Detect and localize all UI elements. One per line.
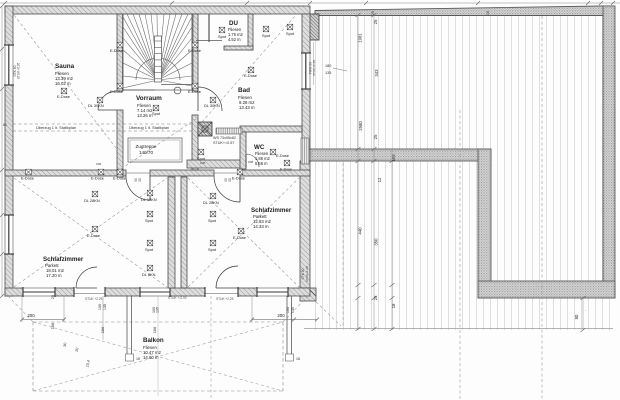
svg-text:100: 100 xyxy=(98,304,102,310)
svg-text:DU: DU xyxy=(229,20,238,27)
Spot bad 1 xyxy=(263,26,269,32)
section dashed line B xyxy=(541,16,543,400)
window bottom wall 3 xyxy=(257,288,288,296)
terrace top parapet wall xyxy=(315,6,614,16)
E-Dose stair right upper xyxy=(192,42,198,48)
svg-text:E-Dose: E-Dose xyxy=(276,153,289,158)
svg-text:Spot: Spot xyxy=(218,34,227,39)
window bottom wall 1 xyxy=(23,288,55,296)
house right exterior wall mid xyxy=(302,89,310,149)
balcony corner diag left xyxy=(8,296,33,322)
svg-text:E-Dose: E-Dose xyxy=(280,168,292,172)
svg-text:25: 25 xyxy=(373,19,378,24)
house left exterior wall upper xyxy=(5,6,13,45)
svg-text:STUK+0.28: STUK+0.28 xyxy=(312,60,316,76)
DU shower wall horizontal xyxy=(224,46,253,50)
radiator bad bottom xyxy=(216,128,242,134)
diagonal bedroom left a xyxy=(14,178,167,287)
svg-text:14.33 m: 14.33 m xyxy=(253,224,269,229)
svg-text:Bad: Bad xyxy=(238,87,250,94)
svg-text:E-Dose: E-Dose xyxy=(113,176,126,181)
corner dashed diagonal xyxy=(316,302,341,326)
shaft WS dark block xyxy=(198,122,212,136)
svg-text:180: 180 xyxy=(325,64,331,68)
chimney block xyxy=(309,14,319,40)
DU shower wall vertical xyxy=(248,14,253,50)
svg-text:Vorraum: Vorraum xyxy=(136,95,162,102)
svg-text:186: 186 xyxy=(152,327,157,334)
svg-text:5.56 m: 5.56 m xyxy=(255,161,268,166)
svg-text:·: · xyxy=(585,309,586,313)
svg-text:STUK +2.25: STUK +2.25 xyxy=(85,297,103,301)
svg-text:350: 350 xyxy=(374,238,379,246)
svg-text:STUK+0.95: STUK+0.95 xyxy=(17,62,21,79)
stair right wall xyxy=(192,14,198,91)
svg-text:2580: 2580 xyxy=(358,121,363,131)
svg-text:Spot: Spot xyxy=(208,247,217,252)
E-Dose bedroomR top xyxy=(237,169,243,175)
svg-text:Spot: Spot xyxy=(262,33,271,38)
diagonal sauna xyxy=(14,15,116,148)
dimension ticks xyxy=(356,13,361,17)
svg-text:Schlafzimmer: Schlafzimmer xyxy=(43,256,84,263)
svg-text:WS 73x95x82: WS 73x95x82 xyxy=(213,136,236,140)
svg-text:440: 440 xyxy=(358,227,363,235)
svg-text:135: 135 xyxy=(291,307,295,313)
svg-text:Spot: Spot xyxy=(145,247,154,252)
svg-text:STUK+=0.57: STUK+=0.57 xyxy=(213,141,234,145)
E-Dose bedroomL mid xyxy=(92,226,98,232)
stair left wall xyxy=(117,14,123,91)
dimension line chain 3 xyxy=(391,150,393,330)
diagonal bad xyxy=(202,16,295,122)
svg-text:WC: WC xyxy=(254,144,265,151)
svg-text:E-Dose: E-Dose xyxy=(57,94,70,99)
svg-text:Balkon: Balkon xyxy=(143,337,164,344)
Spot mid column 2 xyxy=(147,240,153,246)
svg-text:DL 30KN: DL 30KN xyxy=(204,103,220,108)
section dashed line A xyxy=(459,110,461,400)
DL 8KN mid column xyxy=(147,265,153,271)
Spot bad 2 xyxy=(287,24,293,30)
shaft circle (sink) xyxy=(202,126,208,132)
svg-text:Überzug 1 lt. Statikplan: Überzug 1 lt. Statikplan xyxy=(36,125,76,130)
dimension line chain 2 xyxy=(373,15,375,330)
bedroom divider wall left xyxy=(168,177,175,288)
section dashed line C (gang edge) xyxy=(342,163,344,328)
svg-text:DL 28KN: DL 28KN xyxy=(203,200,219,205)
svg-text:E-Dose: E-Dose xyxy=(91,176,104,181)
svg-text:STUK +-0.00: STUK +-0.00 xyxy=(168,296,187,300)
bottom vertical dim chain mid xyxy=(157,296,159,396)
svg-text:DL 30KN: DL 30KN xyxy=(88,103,104,108)
svg-text:61: 61 xyxy=(3,123,7,127)
balcony dashed outline xyxy=(33,322,283,391)
left dim chain xyxy=(1,6,3,296)
svg-text:18: 18 xyxy=(136,357,140,361)
svg-text:140/70: 140/70 xyxy=(139,150,153,155)
door sauna (arc) xyxy=(98,91,117,110)
svg-text:135: 135 xyxy=(156,307,160,313)
balcony diagonal a xyxy=(33,322,283,391)
svg-text:25: 25 xyxy=(51,295,55,299)
DL 30KN left xyxy=(97,97,103,103)
window jamb ticks bottom wall xyxy=(22,287,24,297)
DL 13KN mid column xyxy=(147,190,153,196)
svg-text:E-Dose: E-Dose xyxy=(21,176,34,181)
staircase winding arc xyxy=(136,58,180,80)
svg-text:E-Dose: E-Dose xyxy=(87,233,100,238)
window left wall upper xyxy=(5,45,13,85)
svg-text:E-Dose: E-Dose xyxy=(110,48,123,53)
dimension line chain 1 xyxy=(357,15,359,330)
svg-text:4.52 m: 4.52 m xyxy=(228,37,241,42)
radiator WC right xyxy=(301,138,309,164)
staircase fan rays xyxy=(123,80,158,88)
door balcony left (arc) xyxy=(76,267,97,288)
house right exterior wall lower xyxy=(300,161,310,296)
E-Dose bedroomL top2 xyxy=(98,169,104,175)
svg-text:12: 12 xyxy=(377,177,382,182)
corner pier bottom right xyxy=(300,288,316,301)
svg-text:STUK +2.25: STUK +2.25 xyxy=(216,297,234,301)
svg-text:E-Dose: E-Dose xyxy=(188,89,201,94)
DL 28KN bedroomR xyxy=(210,193,216,199)
E-Dose stair right lower xyxy=(192,83,198,89)
balcony corner diag right xyxy=(283,296,308,322)
Spot bedroomR 2 xyxy=(210,240,216,246)
svg-text:Spot: Spot xyxy=(152,111,161,116)
svg-text:Überzug 1 lt. Statikplan: Überzug 1 lt. Statikplan xyxy=(129,125,169,130)
door bad (arc) xyxy=(198,87,222,111)
svg-text:18: 18 xyxy=(296,357,300,361)
zugtreppe hatch box xyxy=(128,138,182,162)
svg-text:E-Dose: E-Dose xyxy=(233,235,246,240)
staircase central spine ladder xyxy=(155,36,162,82)
section dash below right door xyxy=(210,296,212,398)
DL 28KN bedroomL xyxy=(92,191,98,197)
window right wall xyxy=(302,53,310,89)
svg-text:008: 008 xyxy=(96,162,101,166)
Spot mid column 1 xyxy=(147,211,153,217)
E-Dose bedroomL top1 xyxy=(26,169,32,175)
corridor wall (between upper rooms and bedrooms) xyxy=(5,170,126,176)
Spot corridor xyxy=(198,149,204,155)
svg-text:13.26 m: 13.26 m xyxy=(137,113,153,118)
window jamb ticks right wall xyxy=(301,52,311,54)
svg-text:Spot: Spot xyxy=(145,218,154,223)
svg-text:008: 008 xyxy=(248,160,253,164)
DU left partition xyxy=(208,14,210,42)
terrace right parapet wall xyxy=(603,6,615,298)
svg-text:Zugtreppe: Zugtreppe xyxy=(136,144,157,149)
svg-text:Spot: Spot xyxy=(208,218,217,223)
house left exterior wall lower xyxy=(5,254,13,296)
diagonal corridor xyxy=(121,119,196,169)
svg-text:135: 135 xyxy=(103,304,107,310)
diagonal bedroom right a xyxy=(188,178,299,287)
house left exterior wall middle xyxy=(5,85,13,215)
svg-text:80: 80 xyxy=(574,314,579,319)
svg-text:E-Dose: E-Dose xyxy=(232,176,245,181)
svg-text:E-Dose: E-Dose xyxy=(110,89,123,94)
svg-text:17.20 m: 17.20 m xyxy=(46,273,62,278)
terrace inner vertical parapet wall xyxy=(478,149,491,298)
E-Dose bedroomR xyxy=(238,228,244,234)
svg-text:Spot: Spot xyxy=(197,156,206,161)
svg-text:18: 18 xyxy=(391,303,396,308)
door balcony right (arc) xyxy=(216,266,238,288)
door opening bottom wall right xyxy=(205,293,238,295)
svg-text:DL 28KN: DL 28KN xyxy=(84,198,100,203)
svg-text:Spot: Spot xyxy=(286,31,295,36)
svg-text:STUK+1.28: STUK+1.28 xyxy=(305,266,309,282)
diagonal bedroom right b xyxy=(188,178,299,287)
Spot DU 1 xyxy=(219,27,225,33)
door opening bottom wall left xyxy=(74,293,105,295)
E-Dose gang wall xyxy=(284,160,290,166)
svg-text:Sauna: Sauna xyxy=(55,63,75,70)
svg-text:008: 008 xyxy=(200,161,205,165)
bottom dim line left 200 xyxy=(22,319,64,321)
E-Dose sauna xyxy=(61,88,67,94)
svg-text:193: 193 xyxy=(391,154,396,162)
WC left wall xyxy=(240,132,246,169)
gang south wall xyxy=(187,160,246,168)
svg-text:186: 186 xyxy=(100,327,105,334)
top dimension line xyxy=(0,2,620,4)
staircase outline xyxy=(123,14,194,90)
window bottom wall 2 xyxy=(140,288,170,296)
svg-text:E-Dose: E-Dose xyxy=(244,73,257,78)
ueberzug dashed beams xyxy=(13,123,192,125)
WC top wall xyxy=(240,126,302,132)
svg-text:25: 25 xyxy=(373,295,378,300)
window jamb ticks left wall xyxy=(4,44,14,46)
vorraum ceiling lamp xyxy=(174,87,181,94)
svg-text:DL 13KN: DL 13KN xyxy=(141,197,157,202)
svg-text:135: 135 xyxy=(325,71,331,75)
door bedroom right (arc) xyxy=(214,176,240,202)
svg-text:16: 16 xyxy=(486,11,490,15)
balcony diagonal b xyxy=(33,322,283,391)
balcony post left xyxy=(126,296,128,354)
bottom vertical dim chain left xyxy=(102,296,104,340)
svg-text:200: 200 xyxy=(277,313,285,318)
DL 30KN right xyxy=(210,97,216,103)
Spot bedroomR 1 xyxy=(210,211,216,217)
terrace bottom parapet wall xyxy=(478,281,615,298)
house right exterior wall upper xyxy=(302,14,310,53)
svg-text:100: 100 xyxy=(286,307,290,313)
window left wall lower xyxy=(5,215,13,254)
house bottom exterior wall segments xyxy=(5,288,23,296)
terrace lower edge line xyxy=(304,328,613,330)
E-Dose stair left upper xyxy=(117,42,123,48)
door bedroom left (arc) xyxy=(126,176,150,200)
svg-text:20: 20 xyxy=(138,178,142,182)
svg-text:25: 25 xyxy=(373,134,378,139)
staircase bottom edge xyxy=(123,89,156,91)
balcony post right xyxy=(286,296,288,354)
svg-text:14.90 m: 14.90 m xyxy=(143,355,159,360)
terrace middle parapet wall xyxy=(310,149,491,161)
E-Dose WC xyxy=(270,149,276,155)
svg-text:343: 343 xyxy=(374,69,379,77)
svg-text:25: 25 xyxy=(371,11,375,15)
E-Dose bedroomL top3 xyxy=(117,169,123,175)
svg-text:Schlafzimmer: Schlafzimmer xyxy=(251,207,292,214)
E-Dose stair left lower xyxy=(117,83,123,89)
svg-text:E-Dose: E-Dose xyxy=(188,48,201,53)
bottom dim line right 200 xyxy=(252,319,317,321)
door WC (arc) xyxy=(246,154,259,167)
svg-text:1981: 1981 xyxy=(358,33,363,43)
E-Dose bad xyxy=(248,67,254,73)
svg-text:200: 200 xyxy=(27,313,35,318)
house top exterior wall xyxy=(5,6,310,14)
svg-text:DL 8KN: DL 8KN xyxy=(142,272,156,277)
svg-text:186: 186 xyxy=(50,323,55,330)
svg-text:16.02 m: 16.02 m xyxy=(55,81,71,86)
svg-text:13.43 m: 13.43 m xyxy=(239,105,255,110)
terrace floor stripes xyxy=(310,13,613,330)
diagonal bedroom left b xyxy=(14,178,167,287)
bedroom divider wall right xyxy=(181,177,187,288)
